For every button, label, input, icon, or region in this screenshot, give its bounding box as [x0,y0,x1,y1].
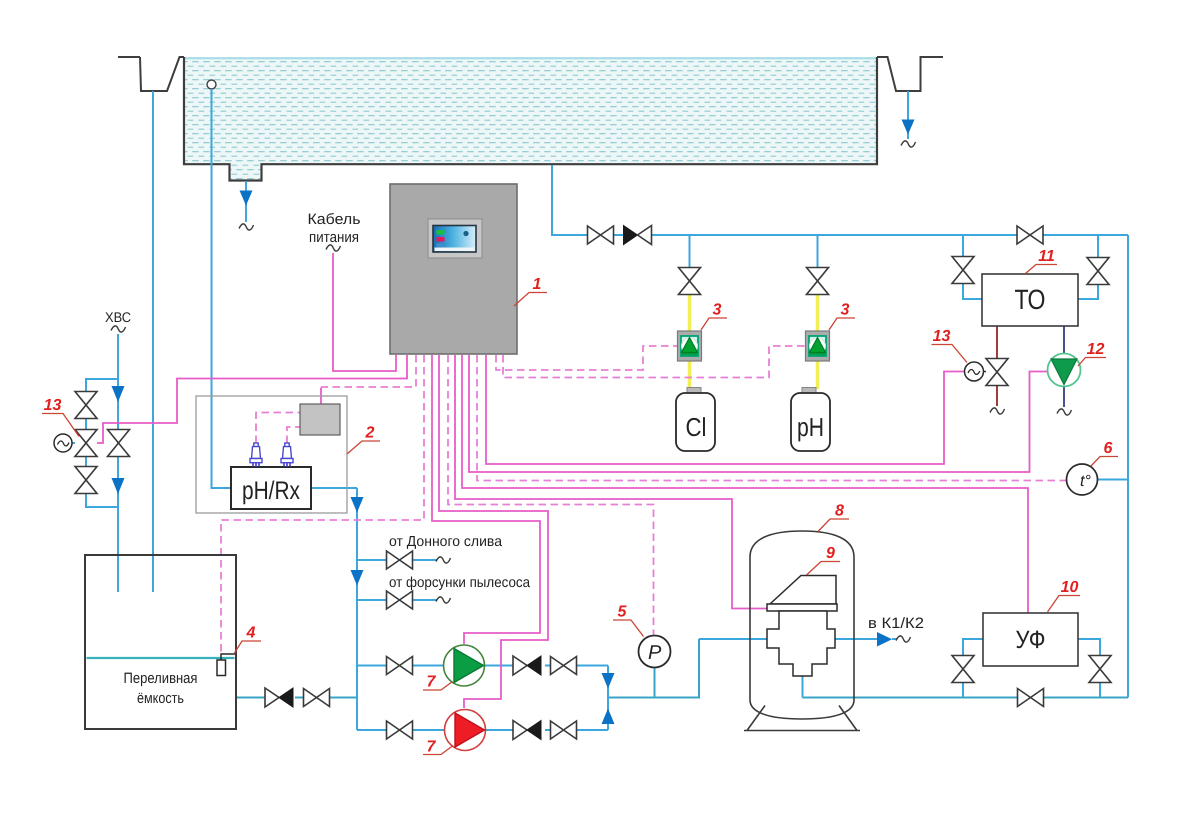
leader 3 Cl [701,318,727,330]
break squiggle: kabel top [326,245,341,251]
wire: filter outlet squiggle stub [892,638,897,640]
wire: pump line 2 corner up [607,698,609,731]
wire: bottom-drain suction branch [357,559,437,561]
leader 7 green [423,682,453,691]
heat exchanger TO box [982,274,1078,326]
svg-text:pH: pH [797,412,824,442]
dosing pump 3 pH [806,331,830,361]
wire: pool bottom drain stub [245,181,247,222]
svg-text:pH/Rx: pH/Rx [242,477,300,505]
wire: tank water level line [87,657,235,659]
leader 8 [818,519,849,532]
circulation pump 12 [1048,354,1081,387]
wire: suction manifold riser [356,488,358,730]
svg-text:2: 2 [365,425,375,442]
wire: pH chemical yellow [816,294,820,390]
wire: Cl dosing branch [689,235,691,268]
wire: XBC bypass loop [86,379,118,507]
valve TO right vertical [1087,258,1109,285]
valve pump2 outlet [551,721,577,739]
wire: pump line 1 [357,665,608,667]
svg-text:Переливная: Переливная [124,670,198,687]
black annotation texts [105,211,924,632]
ground line left [118,56,140,58]
break squiggle: K1/K2 outlet [896,636,911,642]
pressure gauge P 5 [639,636,671,668]
sensor 13 actuator circle [965,362,987,381]
dosing pump 3 Cl [678,331,702,361]
circulation pump 7 green [444,645,485,686]
svg-text:11: 11 [1038,248,1055,265]
break squiggle: pump12 drain [1057,409,1072,415]
wire: pool sensor down to pH/Rx cell [212,89,232,488]
valve 11 bypass TO [1017,226,1043,244]
cable dashed: panel to tank level sensor [221,355,424,652]
UV unit box [983,613,1078,666]
wire: XBC main supply [117,334,119,592]
leader 9 [807,562,841,576]
electrode 2 [281,443,293,467]
wire: TO right branch [1097,235,1099,257]
wire: P gauge drop [654,668,656,698]
control panel U1 [390,184,517,354]
leader 1 [514,293,547,307]
break squiggle: right gutter [901,141,916,147]
leader 4 [235,641,262,653]
wire: Cl chemical yellow [688,294,692,390]
leader 13 left [42,414,79,437]
arrow: XBC upper [112,386,125,402]
tank level sensor 4 [217,654,235,676]
wire: t-sensor tee [1098,479,1129,481]
cable: panel to red pump [439,355,548,708]
svg-text:ХВС: ХВС [105,309,131,325]
wire: right gutter drain stub [907,91,909,139]
svg-text:в К1/К2: в К1/К2 [868,615,924,632]
wire: TO left branch [962,235,964,256]
cable dashed: electrode 1 to controller [256,413,300,444]
cable: panel to sensor 13 right [486,355,964,464]
cable dashed: panel to pH/Rx controller [321,355,416,387]
break squiggle: XBC top [111,326,126,332]
svg-text:6: 6 [1104,440,1113,457]
wire: tank outlet [236,697,357,699]
cable: panel to green pump [432,355,540,644]
valve XBC bypass lower [75,467,97,494]
wire: UV right valve to bottom rail [1099,683,1101,698]
valve XBC solenoid body [75,430,97,457]
valve pump1 outlet [551,657,577,675]
pool drain notch water [230,164,261,180]
leader 2 [347,441,380,454]
arrow: pool drain down [240,191,253,206]
electrode 1 [250,443,262,467]
cable dashed: panel to Cl dosing pump [496,346,677,370]
check valve pump2 [513,721,541,740]
svg-text:9: 9 [826,545,835,562]
wire: TO to pump12 navy [1063,326,1065,407]
cable: power cable to panel [333,253,396,371]
arrow: filter outlet right [877,632,892,647]
cable dashed: panel to t sensor [477,355,1066,481]
valve TO left vertical [952,257,974,284]
valve pH branch vertical [807,268,829,295]
wire: UV right port [1078,639,1100,656]
wire: UV left port [963,639,983,656]
break squiggle: TO drain [990,408,1005,414]
svg-text:5: 5 [618,604,628,621]
pool level sensor float [207,80,216,89]
cable dashed: panel to pH dosing pump [503,346,805,378]
leader 12 [1078,358,1106,367]
valve vacuum branch [387,591,413,609]
svg-text:от Донного слива: от Донного слива [389,534,503,550]
pH/Rx measuring cell 2 [196,396,347,513]
wire: bottom return rail [803,697,1129,699]
canister Cl [676,388,715,452]
svg-text:Cl: Cl [686,412,707,442]
svg-text:8: 8 [835,503,844,520]
t sensor 6 [1067,464,1098,495]
arrow: pH/Rx outlet down [351,497,364,513]
svg-text:3: 3 [713,302,722,319]
arrow: pump header up [602,709,615,725]
arrow: right gutter down [902,120,915,135]
wire: pH/Rx outlet [311,487,357,489]
circulation pump 7 red [445,710,486,751]
cable: panel to pump 12 [469,355,1047,472]
svg-text:4: 4 [246,625,256,642]
svg-text:t°: t° [1080,473,1091,490]
arrow: XBC lower [112,478,125,494]
cable: panel to XBC solenoid [97,355,407,443]
valve on top rail [588,226,614,244]
leader 3 pH [829,318,855,330]
leader 11 [1026,265,1058,274]
break squiggle: vacuum branch [436,597,451,603]
wire: TO right branch lower [1078,285,1098,300]
wire: filter inlet left port [699,638,767,640]
svg-text:1: 1 [533,276,542,293]
valve UV bypass bottom [1018,689,1044,707]
svg-text:7: 7 [427,739,437,756]
solenoid actuator circle [54,434,72,452]
svg-text:от форсунки пылесоса: от форсунки пылесоса [389,575,531,591]
check valve top rail [624,226,652,245]
valve TO drain vertical [986,359,1008,386]
right overflow gutter [877,57,943,91]
valve XBC main [108,430,130,457]
svg-text:13: 13 [44,397,62,414]
wire: pump discharge header [608,639,699,698]
pool basin outline [184,57,877,181]
cable dashed: electrode 2 to controller [287,427,300,443]
cable: panel to UV unit [462,355,1028,613]
canister pH [791,388,830,452]
svg-text:питания: питания [309,229,359,246]
svg-text:Кабель: Кабель [308,211,361,228]
left overflow gutter [140,57,184,91]
wire: left gutter drain to tank [152,91,154,592]
valve tank outlet [304,689,330,707]
wire: UV left valve to bottom rail [962,683,964,698]
wire: pH dosing branch [817,235,819,268]
valve XBC bypass upper [75,392,97,419]
red reference labels [42,265,1118,755]
pool water surface line [185,57,876,59]
leader 7 red [423,746,453,755]
cable: panel to filter valve [455,355,767,609]
svg-text:P: P [648,642,662,664]
leader 5 [613,620,644,637]
multiport valve 9 [767,576,837,677]
wire: right return riser [1127,235,1129,698]
wire: pump line 1 corner down [607,666,609,698]
leader 6 [1091,457,1118,467]
filter vessel 8 [744,531,860,731]
valve UV left vertical [952,656,974,683]
leader 13 right [932,345,968,363]
wire: filter bottom outlet [802,676,804,698]
wire: TO left branch lower [963,284,982,300]
check valve tank outlet [265,688,293,707]
cable: pH/Rx controller drop [320,388,322,405]
valve bottom drain branch [387,551,413,569]
svg-text:7: 7 [427,674,437,691]
wire: pump line 2 [357,729,608,731]
svg-text:ТО: ТО [1015,284,1046,315]
svg-text:3: 3 [841,302,850,319]
leader 10 [1048,596,1081,613]
svg-text:10: 10 [1061,579,1079,596]
valve pump2 inlet [387,721,413,739]
wire: pool outlet to top rail [552,165,1128,235]
valve Cl branch vertical [679,268,701,295]
wire: filter outlet to K1/K2 [835,638,877,640]
pool water fill [185,58,876,165]
cable dashed: panel to P gauge [448,355,654,635]
break squiggle: pool drain [239,224,254,230]
wire: solenoid connector [72,442,75,444]
svg-text:13: 13 [933,328,951,345]
break squiggle: bottom drain branch [436,557,451,563]
valve pump1 inlet [387,657,413,675]
wire: vacuum-nozzle suction branch [357,599,437,601]
arrow: manifold riser down [351,570,364,586]
svg-text:УФ: УФ [1016,626,1046,654]
wire: TO drain dark red [996,326,998,406]
svg-text:ёмкость: ёмкость [137,690,184,707]
arrow: pump header down [602,673,615,689]
valve UV right vertical [1089,656,1111,683]
check valve pump1 [513,656,541,675]
overflow tank 4 [85,555,236,729]
svg-text:12: 12 [1087,341,1105,358]
